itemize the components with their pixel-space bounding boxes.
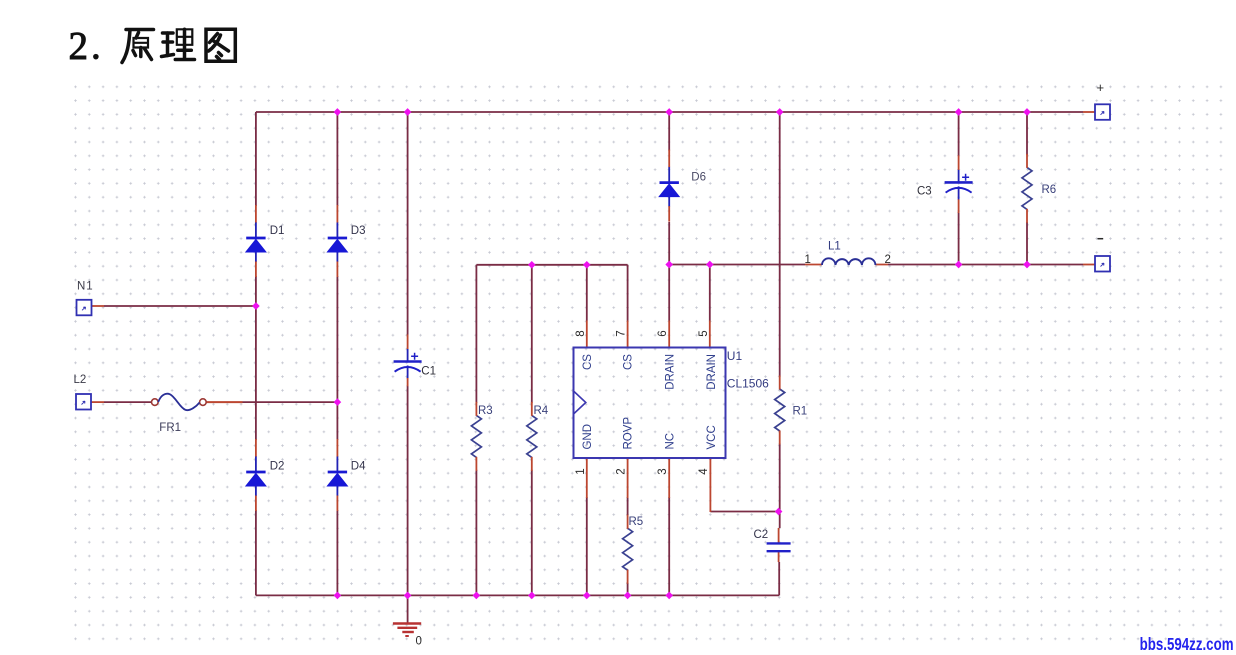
svg-text:D1: D1 bbox=[270, 225, 285, 237]
svg-text:1: 1 bbox=[575, 468, 587, 474]
svg-text:NC: NC bbox=[664, 433, 676, 450]
svg-text:DRAIN: DRAIN bbox=[706, 354, 718, 390]
svg-text:VCC: VCC bbox=[706, 425, 718, 449]
svg-text:R4: R4 bbox=[534, 405, 549, 417]
svg-text:CL1506: CL1506 bbox=[727, 377, 769, 391]
svg-text:6: 6 bbox=[657, 330, 669, 336]
svg-text:C3: C3 bbox=[917, 186, 932, 198]
svg-text:1: 1 bbox=[805, 254, 811, 266]
svg-text:5: 5 bbox=[698, 330, 710, 336]
svg-text:D4: D4 bbox=[351, 461, 366, 473]
svg-text:4: 4 bbox=[698, 468, 710, 475]
svg-text:ROVP: ROVP bbox=[623, 417, 635, 450]
svg-text:3: 3 bbox=[657, 468, 669, 474]
svg-text:C1: C1 bbox=[421, 366, 436, 378]
svg-text:GND: GND bbox=[582, 424, 594, 450]
svg-text:R1: R1 bbox=[793, 406, 808, 418]
svg-text:+: + bbox=[1097, 80, 1105, 95]
svg-text:2: 2 bbox=[885, 254, 891, 266]
svg-text:L1: L1 bbox=[828, 241, 841, 253]
svg-text:8: 8 bbox=[575, 330, 587, 336]
svg-text:D6: D6 bbox=[691, 172, 706, 184]
svg-text:R6: R6 bbox=[1042, 184, 1057, 196]
svg-text:7: 7 bbox=[616, 330, 628, 336]
svg-text:2.: 2. bbox=[69, 25, 104, 68]
svg-text:2: 2 bbox=[616, 468, 628, 474]
svg-text:L2: L2 bbox=[74, 374, 87, 386]
svg-text:U1: U1 bbox=[727, 349, 743, 363]
svg-text:N1: N1 bbox=[77, 281, 94, 293]
svg-text:D2: D2 bbox=[270, 461, 285, 473]
svg-text:D3: D3 bbox=[351, 225, 366, 237]
svg-text:C2: C2 bbox=[754, 529, 769, 541]
svg-text:FR1: FR1 bbox=[159, 422, 181, 434]
svg-text:R5: R5 bbox=[629, 516, 644, 528]
svg-text:0: 0 bbox=[416, 636, 422, 648]
svg-text:R3: R3 bbox=[478, 405, 493, 417]
svg-text:CS: CS bbox=[623, 354, 635, 370]
svg-text:CS: CS bbox=[582, 354, 594, 370]
svg-text:DRAIN: DRAIN bbox=[664, 354, 676, 390]
